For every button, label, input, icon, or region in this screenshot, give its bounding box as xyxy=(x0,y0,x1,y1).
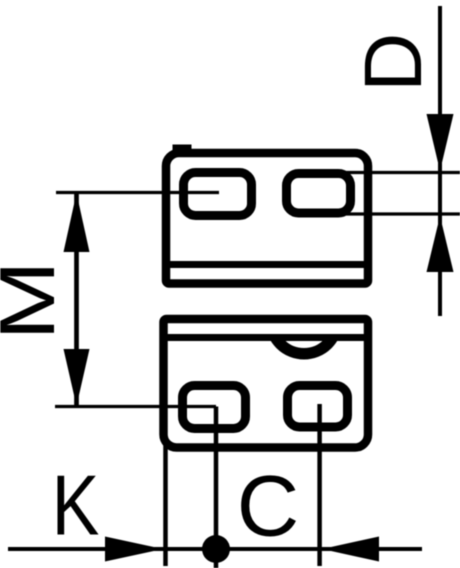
bottom part inner line xyxy=(161,334,371,341)
bottom part outline xyxy=(164,319,369,448)
extension line M top xyxy=(56,191,219,194)
datum dot xyxy=(202,535,230,563)
arrow K right xyxy=(105,537,163,562)
top part outline xyxy=(166,153,368,284)
arrow D down xyxy=(427,114,454,171)
svg-text:C: C xyxy=(237,459,299,555)
label M xyxy=(0,260,71,340)
svg-text:D: D xyxy=(348,33,439,92)
extension line right vertical from right hole xyxy=(317,404,322,566)
bottom part notch arc xyxy=(271,287,338,354)
extension line M bottom xyxy=(55,405,216,408)
dimension line M vertical xyxy=(74,194,79,405)
extension line D top xyxy=(344,171,460,174)
arrow M up xyxy=(64,193,90,252)
label K xyxy=(52,458,100,553)
extension line left vertical (K) xyxy=(163,443,168,566)
top part inner line xyxy=(163,261,371,268)
bottom part right slot hole xyxy=(288,386,348,428)
dimension line D vertical xyxy=(438,6,442,316)
bottom part left slot hole xyxy=(183,386,246,429)
arrow D up xyxy=(427,216,454,272)
top part left slot hole xyxy=(184,173,252,216)
extension line center vertical from left hole xyxy=(214,407,219,568)
top part top-left tick xyxy=(173,145,192,154)
label D xyxy=(348,33,439,92)
arrow C left xyxy=(322,537,379,562)
dimension line bottom xyxy=(8,547,422,551)
extension line D bottom xyxy=(337,212,460,215)
top part right slot hole xyxy=(287,174,351,214)
svg-text:K: K xyxy=(52,458,100,553)
arrow M down xyxy=(64,349,90,406)
svg-text:M: M xyxy=(0,260,71,340)
